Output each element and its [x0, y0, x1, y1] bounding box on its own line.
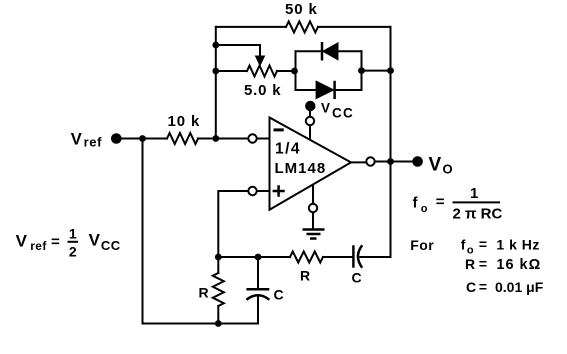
wire non-inverting to bottom node	[218, 191, 248, 257]
svg-text:ref: ref	[84, 135, 102, 150]
svg-text:C: C	[274, 287, 284, 303]
svg-text:V: V	[429, 154, 442, 175]
svg-text:16 kΩ: 16 kΩ	[496, 257, 541, 273]
formula R = 16 kOhm	[465, 256, 541, 274]
wire feedback R to C	[323, 256, 353, 258]
svg-text:V: V	[321, 101, 330, 116]
wire bottom node to feedback R	[218, 256, 290, 258]
formula Vref = 1/2 Vcc	[16, 226, 121, 260]
formula fo = 1 / 2piRC	[413, 185, 503, 223]
svg-text:V: V	[89, 230, 101, 249]
svg-text:=: =	[51, 234, 60, 251]
wire diode box left vertical	[295, 51, 297, 90]
svg-text:ref: ref	[30, 239, 47, 253]
wire pot right	[277, 70, 296, 72]
pin circle ground	[309, 204, 317, 212]
svg-text:=: =	[479, 278, 487, 294]
junction node diode right	[358, 67, 365, 74]
svg-text:1: 1	[470, 185, 478, 202]
potentiometer R2 5.0k zigzag	[247, 66, 277, 77]
svg-text:50 k: 50 k	[285, 1, 318, 18]
svg-text:1/4: 1/4	[275, 141, 301, 158]
capacitor C vertical plates	[246, 289, 269, 299]
label Vo	[429, 154, 453, 176]
junction node right rail diodes	[387, 67, 394, 74]
wire Vcc pin to op-amp	[309, 125, 311, 140]
svg-text:5.0 k: 5.0 k	[244, 82, 281, 99]
wire ground pin upper	[312, 185, 314, 204]
junction node Vref branch	[139, 135, 146, 142]
wire non-inverting stub	[257, 190, 270, 192]
diode D2 (cathode right)	[316, 81, 335, 99]
wire pot left	[216, 70, 247, 72]
pin circle inverting input	[248, 134, 256, 142]
svg-text:1 k Hz: 1 k Hz	[496, 237, 539, 253]
junction node pot left	[212, 68, 219, 75]
label Vref terminal	[71, 131, 102, 150]
svg-text:=: =	[479, 256, 487, 272]
formula C = 0.01 uF	[466, 278, 544, 295]
wire feedback C to right rail	[360, 256, 390, 258]
wire R vertical bottom stub	[217, 306, 219, 324]
formula fo = 1 kHz	[461, 236, 540, 257]
wire op-amp output stub	[351, 161, 366, 163]
junction node bottom C top	[255, 254, 262, 261]
wire Vref terminal to 10k	[121, 138, 167, 140]
junction node bottom R lower	[215, 320, 222, 327]
op-amp U1 triangle	[270, 118, 352, 210]
label Vcc top	[321, 101, 354, 121]
wire wiper arm	[216, 45, 260, 57]
resistor R vertical zigzag	[213, 273, 224, 306]
pin circle output	[366, 157, 374, 165]
wire diode box top	[296, 50, 362, 52]
wire Vcc dot to pin	[309, 111, 311, 118]
svg-text:f: f	[413, 194, 419, 211]
svg-text:R: R	[465, 256, 475, 272]
wire C vertical bottom stub	[257, 295, 259, 323]
junction node output	[387, 158, 394, 165]
svg-text:R: R	[199, 285, 209, 301]
resistor R3 10k zigzag	[167, 133, 198, 144]
svg-text:C: C	[352, 270, 362, 286]
terminal dot Vref	[111, 133, 122, 144]
wire R vertical top stub	[217, 257, 219, 273]
svg-text:0.01 μF: 0.01 μF	[495, 279, 544, 295]
resistor R feedback zigzag	[290, 252, 323, 263]
resistor R1 50k zigzag	[286, 21, 318, 32]
svg-text:2: 2	[69, 243, 77, 259]
junction node bottom R top	[215, 254, 222, 261]
capacitor C feedback plates	[353, 245, 362, 267]
op-amp minus sign	[274, 128, 284, 131]
svg-text:f: f	[461, 237, 466, 253]
svg-text:O: O	[443, 161, 453, 176]
ground symbol bars	[303, 230, 325, 239]
svg-text:=: =	[436, 194, 445, 211]
svg-text:1: 1	[69, 226, 77, 242]
svg-text:o: o	[421, 203, 428, 215]
wire output to Vo terminal	[375, 161, 413, 163]
wire top horizontal	[216, 26, 391, 28]
pin circle non-inverting input	[248, 187, 256, 195]
svg-text:C: C	[466, 279, 476, 295]
svg-text:LM148: LM148	[275, 160, 327, 177]
svg-text:10 k: 10 k	[168, 113, 201, 130]
svg-text:V: V	[16, 231, 28, 250]
junction node 10k to left rail	[212, 135, 219, 142]
svg-text:2 π RC: 2 π RC	[453, 205, 503, 222]
wire left rail	[215, 27, 217, 139]
svg-text:For: For	[410, 237, 434, 253]
junction node pot top tap	[212, 42, 219, 49]
wire inverting input stub	[257, 138, 270, 140]
junction node pot right / diode left	[291, 68, 298, 75]
wire diode box bottom	[296, 89, 362, 91]
svg-text:R: R	[300, 268, 310, 284]
wire far-left rail down and bottom	[143, 139, 259, 324]
svg-text:CC: CC	[332, 106, 354, 121]
diode D1 (cathode left)	[322, 42, 338, 61]
potentiometer wiper arrow	[256, 56, 265, 66]
wire right rail	[390, 27, 392, 257]
svg-text:=: =	[479, 236, 487, 252]
terminal dot Vo	[412, 156, 423, 167]
wire C vertical top stub	[257, 257, 259, 289]
pin circle Vcc	[306, 117, 314, 125]
wire ground pin lower	[312, 212, 314, 229]
wire diode box right vertical	[361, 51, 363, 90]
svg-text:o: o	[467, 245, 474, 257]
svg-text:V: V	[71, 131, 82, 149]
wire diodes to right rail	[362, 70, 391, 72]
terminal dot Vcc	[305, 101, 315, 111]
op-amp plus sign	[273, 185, 285, 197]
svg-text:CC: CC	[101, 238, 121, 253]
wire 10k to inverting input	[198, 138, 248, 140]
